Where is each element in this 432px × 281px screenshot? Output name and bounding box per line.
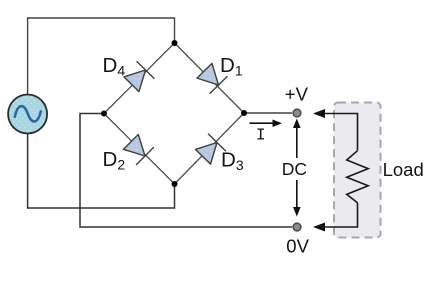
svg-text:D1: D1	[220, 54, 243, 79]
wire bridge edge left-top	[104, 43, 175, 114]
svg-text:Load: Load	[383, 159, 424, 180]
wire AC bottom to bottom node	[28, 133, 175, 208]
wire AC top to top node	[28, 18, 175, 95]
diode D3	[194, 134, 226, 166]
node top junction	[172, 40, 178, 46]
svg-text:0V: 0V	[286, 235, 309, 256]
terminal 0V	[293, 223, 301, 231]
svg-text:D2: D2	[103, 148, 126, 173]
svg-text:D3: D3	[221, 149, 244, 174]
terminal +V	[293, 109, 301, 117]
wire bridge edge top-right	[175, 43, 245, 113]
svg-text:+V: +V	[285, 83, 309, 104]
wire load bottom	[322, 203, 358, 227]
ac source V1	[8, 95, 47, 134]
wire right node to +V terminal	[244, 112, 292, 114]
load enclosure dashed box	[334, 103, 381, 238]
arrow DC down into 0V	[293, 180, 301, 217]
arrow load top into +V	[313, 109, 325, 118]
arrow I current	[250, 120, 283, 128]
wire bridge edge left-bottom	[104, 114, 175, 185]
diode D4	[123, 61, 155, 93]
arrow DC up into +V	[293, 119, 301, 159]
node right junction	[241, 110, 247, 116]
arrow load bottom into 0V	[313, 223, 325, 232]
node left junction	[101, 111, 107, 117]
svg-text:D4: D4	[103, 54, 126, 79]
wire left node to 0V terminal	[80, 114, 292, 228]
wire bridge edge bottom-right	[175, 113, 245, 184]
svg-text:I: I	[256, 125, 266, 144]
resistor R-load	[347, 151, 369, 203]
diode D2	[122, 133, 154, 165]
wire load top	[322, 114, 358, 151]
node bottom junction	[172, 181, 178, 187]
svg-text:DC: DC	[282, 159, 307, 179]
diode D1	[196, 62, 228, 94]
